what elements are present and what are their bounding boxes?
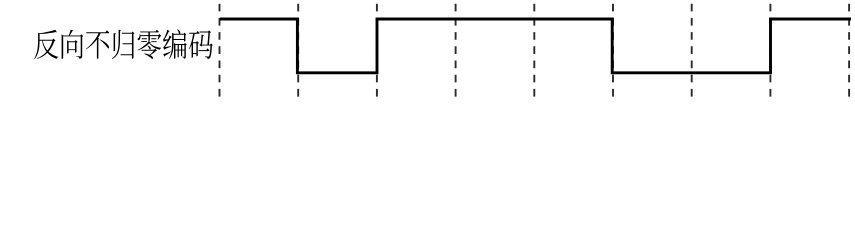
NRZI encoding waveform diagram — [0, 0, 855, 110]
label text char 不 — [86, 30, 110, 59]
label text char 归 — [112, 30, 134, 59]
bit boundary dashed line 9 — [848, 4, 850, 97]
bit boundary dashed line 8 — [769, 4, 771, 97]
bit boundary dashed line 1 — [219, 4, 221, 97]
bit boundary dashed line 5 — [533, 4, 535, 97]
label text char 反 — [34, 30, 58, 59]
bit boundary dashed line 3 — [376, 4, 378, 97]
label text char 编 — [163, 29, 187, 59]
bit boundary dashed line 6 — [612, 4, 614, 97]
NRZI waveform trace — [220, 19, 851, 73]
label text char 零 — [138, 30, 162, 59]
bit boundary dashed line 4 — [455, 4, 457, 97]
bit boundary dashed line 2 — [297, 4, 299, 97]
label text char 码 — [189, 30, 213, 59]
bit boundary dashed line 7 — [691, 4, 693, 97]
label text char 向 — [62, 30, 84, 59]
